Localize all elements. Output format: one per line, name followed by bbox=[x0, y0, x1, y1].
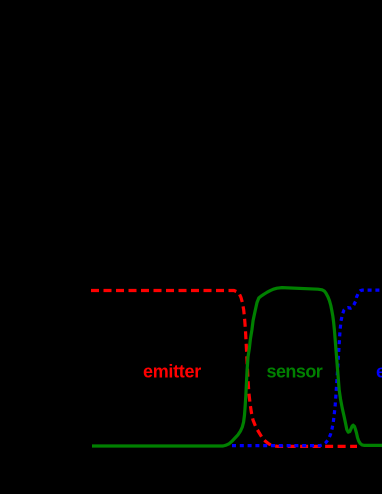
eye curve (blue dotted) bbox=[232, 290, 382, 446]
emitter curve (red dashed) bbox=[91, 291, 357, 447]
svg-text:emitter: emitter bbox=[143, 362, 201, 382]
svg-text:sensor: sensor bbox=[267, 362, 323, 382]
sensor curve (green solid) bbox=[92, 288, 382, 446]
svg-text:eye: eye bbox=[376, 362, 382, 382]
